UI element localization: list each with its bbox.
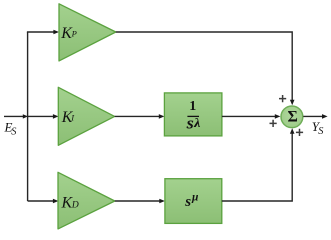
gain KD triangle: [58, 172, 115, 229]
wire: summer to output Y_S: [303, 115, 323, 117]
svg-text:s: s: [184, 194, 191, 210]
wire: KI apex to integrator block: [115, 115, 160, 117]
svg-text:1: 1: [189, 99, 196, 114]
plus sign bottom: [296, 129, 303, 136]
wire: KP apex to top-right corner then down into summer: [116, 32, 292, 100]
wire: input E_S to junction: [4, 115, 24, 117]
plus sign left: [270, 120, 277, 127]
svg-text:Σ: Σ: [288, 109, 298, 126]
svg-text:S: S: [11, 127, 16, 138]
wire: KD apex to derivative block: [115, 200, 161, 202]
plus sign top: [279, 95, 286, 102]
block 1/s^lambda: [164, 93, 222, 136]
svg-text:D: D: [71, 200, 79, 210]
svg-text:μ: μ: [191, 192, 199, 204]
svg-text:s: s: [186, 114, 195, 133]
svg-text:λ: λ: [193, 115, 201, 130]
arrowhead at junction: [23, 114, 28, 118]
wire: vertical branch line: [27, 32, 29, 201]
wire: junction to KI with arrowhead: [28, 115, 54, 117]
wire: junction to KP with arrowhead: [27, 31, 54, 33]
wire: integrator to summer: [222, 115, 276, 117]
gain KI triangle: [58, 87, 114, 145]
summer circle: [281, 106, 303, 128]
block s^mu: [165, 179, 222, 224]
wire: junction to KD with arrowhead: [28, 200, 54, 202]
svg-text:P: P: [71, 28, 77, 38]
svg-text:S: S: [318, 126, 323, 137]
wire: derivative block right, up into summer: [222, 133, 292, 201]
gain KP triangle: [59, 4, 116, 61]
